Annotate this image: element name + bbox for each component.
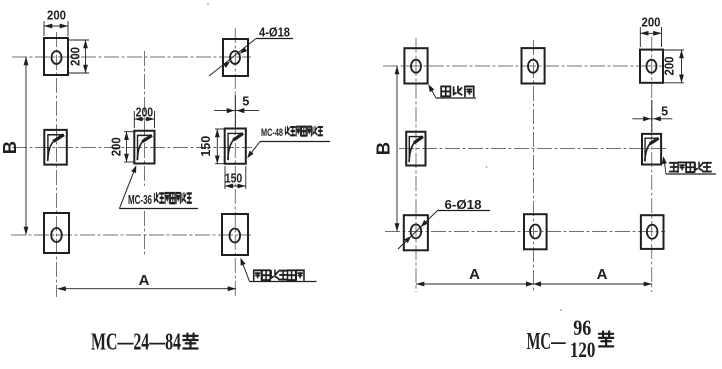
svg-text:150: 150 [225,172,243,186]
svg-text:A: A [469,266,480,283]
svg-text:MC—: MC— [527,328,566,355]
svg-text:150: 150 [199,136,213,157]
svg-text:200: 200 [663,56,677,75]
svg-text:200: 200 [136,106,154,120]
svg-text:6-Ø18: 6-Ø18 [445,197,482,212]
svg-text:A: A [597,266,608,283]
svg-text:5: 5 [242,95,249,109]
svg-text:MC—24—84: MC—24—84 [91,329,181,356]
svg-text:200: 200 [47,9,66,23]
svg-text:200: 200 [642,15,661,29]
svg-text:120: 120 [570,337,596,362]
svg-text:MC-48: MC-48 [261,127,283,139]
svg-text:B: B [372,142,393,155]
svg-text:200: 200 [110,137,124,156]
svg-text:MC-36: MC-36 [128,193,152,207]
svg-text:B: B [0,141,20,154]
svg-text:200: 200 [69,47,83,66]
svg-text:4-Ø18: 4-Ø18 [259,26,290,40]
svg-text:A: A [139,272,150,289]
svg-text:5: 5 [661,104,668,118]
